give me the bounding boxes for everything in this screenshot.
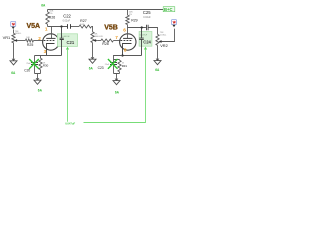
wire V5B cathode row [114, 56, 123, 60]
junction dot C21 tap [60, 25, 62, 27]
capacitor C22 [63, 14, 72, 29]
wire V5B plate node [128, 27, 146, 29]
wire highlighted net C24 side [144, 47, 147, 123]
svg-text:C24: C24 [143, 39, 151, 44]
svg-text:V5B: V5B [104, 25, 118, 32]
wire R28 to V5B grid [114, 40, 120, 42]
capacitor C23 (bypassed) [98, 60, 117, 74]
svg-text:6A: 6A [115, 90, 120, 94]
X mark C23 [108, 59, 118, 69]
junction dot C24 tap [141, 26, 143, 28]
wire V5A cathode bottom row [35, 74, 41, 79]
capacitor C25 [143, 10, 151, 30]
svg-text:100K-LIN: 100K-LIN [94, 36, 103, 38]
resistor R27 [79, 19, 92, 28]
svg-text:8: 8 [124, 47, 127, 52]
svg-text:R30: R30 [43, 64, 49, 68]
wire R27 to pot [92, 27, 93, 32]
wire V5A plate node [48, 26, 68, 28]
wire C25 to VR2 [149, 28, 158, 35]
triode V5B [120, 28, 136, 56]
probe V output [172, 20, 177, 28]
ground C20/R30 [34, 78, 41, 84]
resistor R31 [118, 60, 127, 74]
svg-text:1%: 1% [129, 14, 132, 16]
potentiometer chorus [91, 32, 103, 57]
wire V5B cathode bottom row [114, 74, 120, 79]
ground VR1 [10, 59, 17, 65]
capacitor C20 (bypassed) [24, 56, 38, 74]
svg-text:R29: R29 [131, 19, 137, 23]
svg-text:0.02uF: 0.02uF [63, 20, 71, 23]
svg-text:3: 3 [44, 49, 47, 54]
svg-text:C21: C21 [67, 40, 75, 45]
svg-text:0.047uF: 0.047uF [62, 36, 70, 38]
resistor R25 [25, 37, 33, 47]
svg-text:B+C: B+C [164, 7, 173, 12]
svg-text:0.047uF: 0.047uF [65, 121, 75, 125]
svg-text:CCW-L: CCW-L [160, 34, 167, 36]
wire V5A cathode row [35, 55, 62, 57]
capacitor C21 (highlighted) [57, 27, 77, 56]
svg-text:6: 6 [123, 28, 126, 33]
svg-text:6A: 6A [155, 68, 160, 72]
svg-text:R31: R31 [122, 64, 128, 68]
svg-text:VR1: VR1 [3, 35, 11, 40]
svg-text:VR2: VR2 [160, 43, 168, 48]
capacitor C24 (highlighted) [139, 28, 152, 56]
svg-text:R27: R27 [80, 19, 87, 23]
wire highlighted net C21 side [66, 47, 69, 122]
wire R25 to V5A grid [34, 40, 43, 42]
svg-text:2: 2 [38, 36, 41, 41]
svg-text:100K-L: 100K-L [15, 33, 22, 35]
svg-text:V5A: V5A [27, 23, 41, 30]
svg-text:0.02uF: 0.02uF [143, 16, 151, 19]
triode V5A [43, 27, 59, 56]
wire C24 to V5B cathode [123, 55, 142, 57]
svg-text:R26: R26 [49, 16, 55, 20]
svg-text:6A: 6A [38, 89, 43, 93]
svg-text:R25: R25 [27, 43, 33, 47]
ground chorus pot [89, 57, 96, 63]
junction dot V5B cathode [121, 54, 123, 56]
ground VR2 [154, 59, 161, 65]
svg-text:6A: 6A [11, 71, 16, 75]
svg-text:R28: R28 [102, 42, 108, 46]
resistor R28 [101, 39, 114, 46]
net flag B+C [163, 7, 175, 12]
svg-text:6A: 6A [41, 4, 46, 8]
svg-text:10K: 10K [80, 24, 84, 26]
wire VR1 wiper to R25 [19, 40, 26, 42]
resistor R26 [46, 10, 55, 27]
potentiometer VR2 [156, 29, 175, 59]
X mark C20 [29, 59, 39, 69]
potentiometer VR1 [12, 29, 22, 58]
svg-text:1: 1 [45, 27, 48, 32]
ground C23/R31 [113, 79, 120, 85]
svg-text:C25: C25 [143, 10, 151, 15]
wire highlighted net bottom [84, 122, 146, 124]
svg-text:0.047uF: 0.047uF [140, 34, 148, 36]
resistor R29 [126, 10, 138, 28]
svg-text:6A: 6A [89, 66, 94, 70]
svg-text:7: 7 [115, 35, 118, 40]
svg-text:C22: C22 [63, 14, 71, 19]
probe V input [11, 21, 16, 29]
wire wiper to R28 [97, 40, 101, 42]
svg-text:C20: C20 [24, 69, 30, 73]
wire B+ rail [48, 9, 164, 11]
resistor R30 [39, 56, 49, 74]
svg-text:C23: C23 [98, 66, 104, 70]
wire C22 to R27 [71, 26, 79, 28]
